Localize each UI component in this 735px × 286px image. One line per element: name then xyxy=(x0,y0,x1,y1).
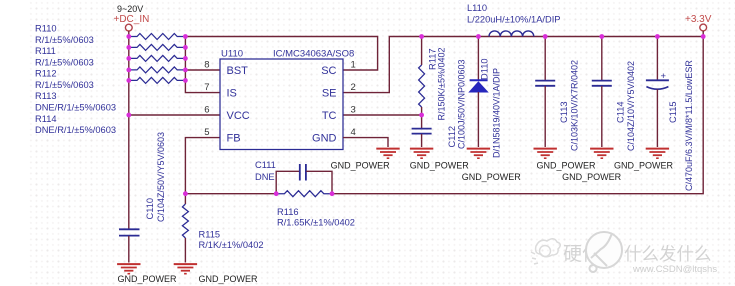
resistor R110 xyxy=(129,34,186,40)
svg-text:D/1N5819/40V/1A/DIP: D/1N5819/40V/1A/DIP xyxy=(492,68,502,158)
svg-text:SC: SC xyxy=(321,65,336,77)
svg-text:R112: R112 xyxy=(35,69,57,79)
svg-text:L110: L110 xyxy=(467,3,487,13)
svg-text:R/1K/±1%/0402: R/1K/±1%/0402 xyxy=(199,240,264,250)
capacitor C110 xyxy=(119,228,140,230)
svg-text:7: 7 xyxy=(204,82,209,93)
svg-text:GND_POWER: GND_POWER xyxy=(562,172,622,182)
svg-text:3: 3 xyxy=(351,105,356,116)
wire GND pin4 to ground xyxy=(343,138,388,147)
svg-text:L/220uH/±10%/1A/DIP: L/220uH/±10%/1A/DIP xyxy=(467,14,560,24)
wire feedback line from +3.3V to R116 xyxy=(332,37,703,194)
wire SE pin2 to output rail xyxy=(343,37,703,93)
watermark logo and text xyxy=(531,239,560,264)
ground GND_POWER of C112 xyxy=(410,148,433,150)
svg-text:C/103K/10V/X7R/0402: C/103K/10V/X7R/0402 xyxy=(570,60,580,151)
svg-text:R/1.65K/±1%/0402: R/1.65K/±1%/0402 xyxy=(277,218,355,228)
wire VCC pin6 xyxy=(129,114,220,116)
junction dots xyxy=(126,34,131,39)
wire rail to SC pin1 xyxy=(185,37,377,71)
resistor R115 xyxy=(184,194,186,204)
svg-text:5: 5 xyxy=(204,127,209,138)
wire sense right bus vertical xyxy=(185,37,220,93)
resistor R114 xyxy=(129,77,186,83)
power port +3.3V xyxy=(700,24,707,31)
svg-text:6: 6 xyxy=(204,105,209,116)
svg-text:DNE: DNE xyxy=(255,172,275,182)
svg-text:D110: D110 xyxy=(480,58,490,80)
svg-text:R/150K/±5%/0402: R/150K/±5%/0402 xyxy=(437,48,447,121)
capacitor C111 DNE xyxy=(276,171,299,193)
svg-text:C112: C112 xyxy=(447,126,457,148)
svg-text:R115: R115 xyxy=(199,230,221,240)
svg-text:C/104Z/50V/Y5V/0603: C/104Z/50V/Y5V/0603 xyxy=(156,132,166,222)
resistor R113 xyxy=(129,67,186,73)
wire FB node to R116 left xyxy=(185,193,276,195)
diode D110 xyxy=(477,37,479,81)
svg-text:+DC_IN: +DC_IN xyxy=(114,14,150,25)
svg-text:U110: U110 xyxy=(221,49,243,60)
capacitor C112 xyxy=(421,115,423,128)
svg-text:9~20V: 9~20V xyxy=(117,4,143,14)
svg-text:什么发什么: 什么发什么 xyxy=(624,244,712,264)
svg-text:C/104Z/10V/Y5V/0402: C/104Z/10V/Y5V/0402 xyxy=(626,61,636,151)
svg-text:R/1/±5%/0603: R/1/±5%/0603 xyxy=(35,80,94,90)
svg-text:R114: R114 xyxy=(35,114,57,124)
ground GND_POWER of C110 xyxy=(117,263,140,265)
resistor R117 xyxy=(421,37,423,66)
resistor R116 xyxy=(276,191,332,197)
svg-text:BST: BST xyxy=(227,65,249,77)
wire Vin left bus vertical xyxy=(128,37,130,230)
svg-text:2: 2 xyxy=(351,82,356,93)
svg-text:IS: IS xyxy=(227,88,237,100)
op-amp U110 IC/MC34063A/SO8 box xyxy=(220,59,343,150)
svg-text:C/470uF/6.3V/M/8*11.5/LowESR: C/470uF/6.3V/M/8*11.5/LowESR xyxy=(684,60,694,191)
svg-text:FB: FB xyxy=(227,133,241,145)
svg-text:8: 8 xyxy=(204,60,209,71)
inductor L110 xyxy=(489,31,534,37)
wire FB pin5 down to divider node xyxy=(185,138,220,194)
ground GND_POWER of D110 xyxy=(467,148,490,150)
svg-text:+3.3V: +3.3V xyxy=(685,14,712,25)
ground GND_POWER of pin4 xyxy=(376,148,399,150)
svg-text:GND_POWER: GND_POWER xyxy=(118,274,178,284)
svg-text:C110: C110 xyxy=(145,198,155,220)
svg-text:GND_POWER: GND_POWER xyxy=(199,274,259,284)
svg-text:R/1/±5%/0603: R/1/±5%/0603 xyxy=(35,58,94,68)
svg-text:IC/MC34063A/SO8: IC/MC34063A/SO8 xyxy=(273,49,354,60)
svg-text:R111: R111 xyxy=(35,46,56,56)
svg-text:VCC: VCC xyxy=(227,110,250,122)
svg-text:R110: R110 xyxy=(35,24,57,34)
svg-text:+: + xyxy=(661,71,667,82)
svg-text:GND_POWER: GND_POWER xyxy=(614,160,674,170)
svg-text:R113: R113 xyxy=(35,91,57,101)
svg-text:C113: C113 xyxy=(559,101,569,123)
svg-text:C111: C111 xyxy=(255,160,276,170)
ground GND_POWER of C113 xyxy=(534,148,557,150)
ground GND_POWER of R115 xyxy=(174,263,197,265)
svg-text:4: 4 xyxy=(351,127,356,138)
svg-text:GND_POWER: GND_POWER xyxy=(410,160,470,170)
svg-text:DNE/R/1/±5%/0603: DNE/R/1/±5%/0603 xyxy=(35,125,116,135)
svg-text:www.CSDN@ltqshs: www.CSDN@ltqshs xyxy=(632,264,717,275)
svg-text:DNE/R/1/±5%/0603: DNE/R/1/±5%/0603 xyxy=(35,103,116,113)
svg-text:GND_POWER: GND_POWER xyxy=(462,172,522,182)
resistor R111 xyxy=(129,44,186,50)
capacitor C114 xyxy=(601,37,603,81)
ground GND_POWER of C114 xyxy=(590,148,613,150)
svg-text:C/100J/50V/NP0/0603: C/100J/50V/NP0/0603 xyxy=(457,59,467,149)
ground GND_POWER of C115 xyxy=(646,148,669,150)
wire BST pin8 xyxy=(185,69,220,71)
svg-text:R/1/±5%/0603: R/1/±5%/0603 xyxy=(35,35,94,45)
svg-text:SE: SE xyxy=(322,88,337,100)
capacitor C115 electrolytic xyxy=(656,37,658,80)
resistor R112 xyxy=(129,55,186,61)
wire TC pin3 to R117/C112 node xyxy=(343,114,422,116)
svg-text:R116: R116 xyxy=(277,207,299,217)
svg-text:TC: TC xyxy=(322,110,337,122)
svg-text:GND_POWER: GND_POWER xyxy=(331,160,391,170)
svg-text:1: 1 xyxy=(351,60,356,71)
capacitor C113 xyxy=(544,37,546,81)
svg-text:GND: GND xyxy=(312,133,337,145)
svg-text:C115: C115 xyxy=(668,101,678,123)
svg-text:C114: C114 xyxy=(616,101,626,123)
svg-text:GND_POWER: GND_POWER xyxy=(537,160,597,170)
